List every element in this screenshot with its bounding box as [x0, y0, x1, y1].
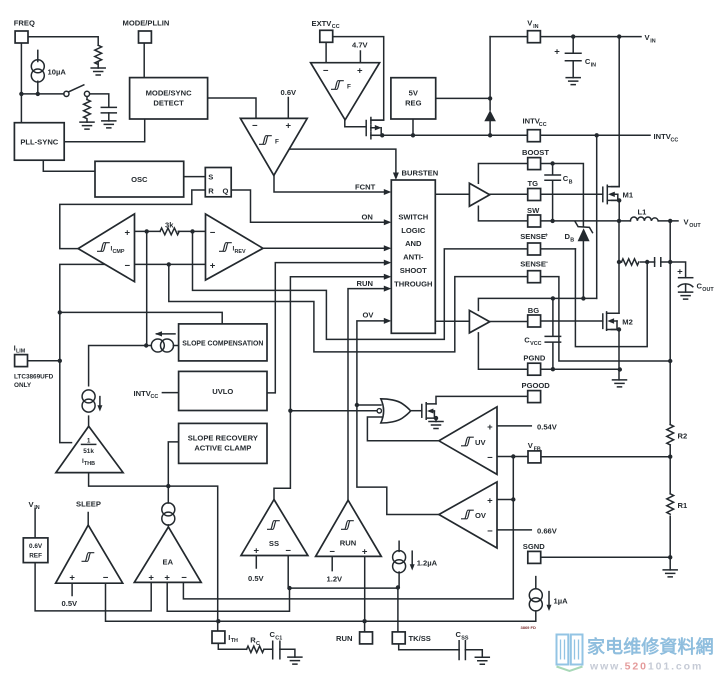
svg-text:RUN: RUN — [336, 634, 352, 643]
svg-text:+: + — [286, 121, 292, 132]
arrowhead RUN — [384, 286, 392, 292]
svg-text:RUN: RUN — [357, 279, 373, 288]
wire IREV output to switch logic — [263, 247, 387, 249]
svg-text:LIM: LIM — [16, 349, 26, 355]
current source 10uA — [31, 60, 66, 82]
pin SGND — [523, 542, 545, 564]
wire resistor under switch stub — [86, 97, 88, 100]
wire CVCC stubs — [552, 298, 554, 369]
svg-text:REG: REG — [405, 99, 422, 108]
wire TKSS pin vertical — [397, 588, 399, 632]
wire M2 source to pgnd ground — [611, 330, 619, 380]
svg-text:SLOPE COMPENSATION: SLOPE COMPENSATION — [182, 340, 263, 347]
wire BOOST pin right to DB — [541, 164, 584, 299]
arrowhead SS — [384, 274, 392, 280]
wire DETECT to 0.6V comparator minus — [208, 98, 256, 118]
wire FREQ pin to top resistor — [28, 37, 98, 46]
svg-text:C1: C1 — [275, 635, 282, 641]
ground under FREQ resistor — [91, 68, 105, 75]
svg-text:www.520101.com: www.520101.com — [589, 661, 703, 673]
diode DB schottky — [565, 221, 593, 243]
node OV to NOR — [355, 403, 359, 407]
ground at M2 source / PGND — [613, 380, 627, 387]
wire 5V REG under-stub — [412, 119, 414, 135]
current source ITHB clamp — [82, 390, 102, 412]
pin SW — [527, 206, 541, 227]
svg-text:BOOST: BOOST — [522, 148, 549, 157]
svg-text:L1: L1 — [638, 208, 648, 217]
svg-text:Q: Q — [223, 187, 229, 196]
svg-text:RUN: RUN — [340, 539, 356, 548]
wire SS plus to 0.5V — [255, 556, 257, 569]
node SW — [550, 219, 554, 223]
svg-text:S: S — [208, 173, 213, 182]
svg-text:51k: 51k — [83, 448, 94, 455]
resistor RC (horizontal) — [247, 636, 264, 653]
inductor L1 — [630, 208, 658, 221]
wire VIN pin right rail — [540, 36, 641, 38]
wire slope recovery to ITH node — [168, 442, 178, 486]
svg-text:R: R — [208, 187, 214, 196]
capacitor DCR sense — [655, 258, 661, 267]
wire EA current source stub — [167, 486, 169, 527]
pin RUN bottom — [336, 632, 373, 644]
node run pin line — [216, 619, 220, 623]
node pgood fet source — [434, 416, 438, 420]
svg-text:BG: BG — [528, 306, 539, 315]
svg-text:+: + — [210, 261, 216, 272]
svg-text:+: + — [487, 422, 493, 433]
svg-text:0.54V: 0.54V — [537, 422, 558, 431]
arrowhead BURSTEN — [393, 173, 399, 181]
wire VOUT cap branch — [670, 262, 685, 278]
svg-text:+: + — [545, 233, 549, 239]
svg-text:0.5V: 0.5V — [62, 599, 79, 608]
svg-text:SENSE: SENSE — [520, 260, 546, 269]
arrowhead slope mirror — [155, 331, 162, 336]
svg-text:−: − — [487, 453, 493, 464]
wire VOUT divider vertical — [669, 221, 671, 570]
wire SLEEP plus to 0.5V — [71, 583, 73, 595]
pfet EXTVCC switch — [366, 118, 384, 139]
capacitor CC1 — [270, 630, 283, 659]
svg-text:PGND: PGND — [523, 354, 545, 363]
wire OV minus to 0.66V — [497, 529, 531, 531]
wire SLEEP minus to RUN pin net — [106, 583, 536, 621]
node slope comp source — [144, 343, 148, 347]
svg-text:+: + — [148, 573, 154, 584]
pin TK/SS — [392, 632, 431, 644]
svg-text:−: − — [252, 121, 258, 132]
wire switch lever — [69, 85, 84, 92]
svg-text:BURSTEN: BURSTEN — [402, 169, 439, 178]
wire 10uA source stub and to node — [37, 50, 39, 94]
svg-text:CC: CC — [151, 394, 159, 400]
block MODE/SYNC DETECT — [130, 78, 208, 119]
node VFB — [511, 454, 515, 458]
op-amp OV comparator — [439, 482, 497, 548]
svg-text:5V: 5V — [409, 89, 419, 98]
arrowhead IREV — [384, 245, 392, 251]
wire UVLO output to switch logic — [267, 263, 387, 393]
driver BG buffer — [469, 310, 489, 333]
arrowhead FCNT — [384, 189, 392, 195]
capacitor CVCC — [524, 336, 560, 347]
wire RUN plus down to run pin line — [364, 556, 366, 621]
capacitor CSS — [456, 630, 469, 660]
svg-text:0.5V: 0.5V — [248, 574, 265, 583]
svg-text:CMP: CMP — [113, 249, 125, 255]
wire sense cap branch down — [575, 249, 647, 347]
wire NOR bottom input from UV output — [367, 417, 439, 441]
svg-text:SGND: SGND — [523, 542, 545, 551]
pin FREQ — [14, 19, 35, 44]
svg-text:IN: IN — [650, 38, 655, 44]
current source slope compensation mirror — [151, 339, 173, 352]
wire slope comp mirror arrow line — [157, 333, 176, 335]
pin INTVCC — [523, 117, 547, 142]
node SS to NOR — [288, 409, 292, 413]
capacitor CB — [545, 174, 573, 185]
mosfet PGOOD pulldown — [422, 403, 436, 422]
svg-text:B: B — [570, 237, 574, 243]
svg-text:4.7V: 4.7V — [352, 41, 369, 50]
resistor R2 — [667, 425, 687, 445]
block SWITCH LOGIC AND ANTI-SHOOT THROUGH — [391, 180, 435, 333]
pin PGND — [523, 354, 545, 376]
current source above EA — [162, 503, 175, 525]
wire INTVCC vertical to lower rail — [596, 135, 598, 298]
svg-text:+: + — [254, 546, 260, 557]
wire BOOST pin to driver rail — [478, 164, 527, 184]
block UVLO — [179, 371, 267, 410]
wire NOR top input from OV line — [357, 404, 381, 406]
op-amp SS comparator — [241, 500, 308, 557]
pin PGOOD — [522, 381, 551, 402]
svg-text:EA: EA — [163, 558, 174, 567]
wire FCNT: comparator out to switch logic — [274, 175, 387, 192]
svg-text:1: 1 — [87, 438, 91, 445]
svg-text:LOGIC: LOGIC — [401, 226, 426, 235]
driver TG buffer — [469, 183, 489, 206]
pin SENSE+ — [520, 232, 548, 255]
svg-text:F: F — [275, 139, 279, 146]
wire TKSS to CSS cap — [399, 644, 483, 657]
pin BG — [528, 306, 541, 327]
capacitor at switch — [101, 107, 116, 121]
svg-text:TK/SS: TK/SS — [409, 634, 431, 643]
pin ITH — [212, 631, 238, 644]
svg-text:FREQ: FREQ — [14, 19, 35, 28]
wire BURSTEN from comparator edge — [289, 149, 396, 176]
wire pfet source to INTVCC rail — [371, 134, 382, 136]
wire VIN label to REF box — [34, 509, 36, 538]
svg-text:SS: SS — [461, 635, 469, 641]
svg-text:SW: SW — [527, 206, 540, 215]
svg-text:INTV: INTV — [654, 132, 672, 141]
wire SW node down to M2 drain — [611, 221, 619, 313]
wire RUN pin stub — [364, 621, 366, 632]
node IREV plus — [167, 262, 171, 266]
arrowhead ON — [384, 219, 392, 225]
wire OV output staircase to switch logic — [357, 321, 439, 515]
block PLL-SYNC — [14, 123, 64, 161]
svg-text:IN: IN — [34, 505, 39, 511]
svg-text:UVLO: UVLO — [212, 387, 233, 396]
svg-text:CC: CC — [539, 122, 547, 128]
svg-text:THROUGH: THROUGH — [394, 279, 432, 288]
svg-text:SENSE: SENSE — [520, 232, 546, 241]
op-amp 1/51k ITHB buffer — [56, 426, 123, 472]
wire M1 stubs to node — [612, 200, 620, 221]
wire OSC to latch S — [184, 176, 206, 178]
wire VFB vertical to EA minus — [183, 457, 513, 599]
wire PGOOD fet drain to pin — [436, 396, 528, 404]
gate NOR pgood — [377, 399, 411, 423]
wire 51k clamp source branch — [89, 346, 147, 427]
wire ICMP plus vertical to slope comp source — [146, 231, 148, 345]
node divider taps — [668, 455, 672, 459]
svg-text:+: + — [487, 496, 493, 507]
svg-text:−: − — [545, 260, 549, 266]
svg-text:0.66V: 0.66V — [537, 526, 558, 535]
svg-text:DETECT: DETECT — [153, 99, 184, 108]
wire SENSE+ net: 3k node down across to pin — [193, 231, 528, 339]
svg-text:IN: IN — [533, 24, 538, 30]
wire switch node horizontal — [21, 94, 108, 107]
svg-text:+: + — [554, 47, 560, 58]
node 3k right — [190, 229, 194, 233]
svg-text:−: − — [285, 546, 291, 557]
svg-text:CC: CC — [671, 137, 679, 143]
svg-text:+: + — [677, 267, 683, 278]
node BOOST — [550, 161, 554, 165]
svg-text:+: + — [362, 547, 368, 558]
svg-text:−: − — [181, 573, 187, 584]
wire VIN down to M1 drain — [612, 37, 620, 187]
svg-text:TG: TG — [528, 179, 539, 188]
wire CIN stub — [572, 37, 574, 78]
block 5V REG — [391, 78, 436, 119]
svg-text:F: F — [347, 84, 351, 91]
wire ITH pin to RC — [218, 643, 295, 657]
svg-text:PLL-SYNC: PLL-SYNC — [20, 138, 58, 147]
wire CB stubs — [552, 164, 554, 221]
wire SS minus stub — [287, 556, 289, 589]
node DCR — [617, 260, 621, 264]
wire NOR output to PGOOD fet gate — [410, 410, 422, 412]
node PGND — [551, 367, 555, 371]
node ITH rail taps — [58, 310, 62, 314]
pin BOOST — [522, 148, 549, 169]
wire SLEEP apex stub — [87, 513, 89, 526]
wire SENSE- pin right to output rail — [541, 277, 671, 361]
block OSC — [95, 161, 184, 197]
svg-text:+: + — [69, 573, 75, 584]
wire SENSE- net: IREV plus node across to pin — [169, 264, 528, 352]
pin EXTVCC — [312, 19, 340, 43]
svg-text:INTV: INTV — [134, 389, 152, 398]
wire SENSE+ pin right — [541, 248, 576, 250]
wire FREQ pin down to PLL-SYNC — [20, 43, 22, 123]
wire latch Q to ON input — [231, 190, 387, 222]
wire slope comp mirror to box — [146, 345, 178, 347]
capacitor CIN — [554, 47, 596, 69]
wire UVLO label stub — [162, 392, 178, 394]
resistor at FREQ pin (vertical) — [95, 45, 102, 68]
wire ITH node line and down to ITH pin — [89, 473, 218, 631]
svg-text:R1: R1 — [678, 501, 688, 510]
wire EXTVCC pin to pfet drain — [332, 37, 383, 121]
wire PGND line — [478, 333, 619, 369]
op-amp ICMP current comparator — [78, 214, 134, 282]
svg-text:OV: OV — [475, 511, 487, 520]
svg-text:OV: OV — [363, 311, 375, 320]
wire ILIM pin to rail — [27, 360, 59, 362]
svg-text:3k: 3k — [165, 221, 174, 230]
svg-text:SHOOT: SHOOT — [400, 266, 427, 275]
wire OV plus to VFB vertical — [497, 499, 513, 501]
resistor R1 — [667, 494, 688, 514]
svg-text:ON: ON — [362, 213, 373, 222]
svg-text:+: + — [125, 227, 131, 238]
block SR latch — [205, 168, 231, 197]
op-amp EXTVCC 4.7V comparator F — [311, 63, 380, 120]
op-amp SLEEP comparator — [56, 525, 123, 583]
node 5VREG diode top — [488, 96, 492, 100]
wire DCR sense network — [619, 261, 670, 263]
svg-text:0.6V: 0.6V — [281, 88, 298, 97]
block SLOPE RECOVERY ACTIVE CLAMP — [179, 423, 267, 463]
wire BG output to M2 gate — [435, 320, 603, 323]
ground under switch resistor — [80, 122, 94, 129]
wire ICMP output to latch R — [60, 190, 206, 249]
wire lower INTVCC rail — [478, 298, 596, 310]
op-amp UV comparator — [439, 407, 497, 475]
wire ICMP plus node to 3k — [135, 230, 161, 232]
diode 5V REG to INTVCC — [484, 110, 496, 122]
svg-text:REF: REF — [29, 552, 42, 559]
node M2 source — [617, 327, 621, 331]
wire diode vertical — [489, 37, 491, 136]
mosfet M2 — [603, 312, 633, 330]
wire 0.6V REF output line to EA plus — [35, 563, 151, 611]
svg-text:CC: CC — [332, 24, 340, 30]
ground after CSS — [475, 657, 489, 664]
current source 1.2uA — [393, 551, 438, 573]
resistor 3k — [160, 221, 179, 235]
pin SENSE- — [520, 260, 548, 283]
svg-text:SLEEP: SLEEP — [76, 500, 101, 509]
svg-text:10µA: 10µA — [48, 68, 67, 77]
svg-text:−: − — [125, 260, 131, 271]
wire UV plus to 0.54V — [497, 425, 531, 427]
ground under CIN — [566, 78, 580, 85]
svg-text:FB: FB — [534, 446, 541, 452]
pin VFB — [528, 441, 541, 463]
svg-text:ONLY: ONLY — [14, 382, 32, 389]
svg-text:MODE/SYNC: MODE/SYNC — [146, 89, 193, 98]
svg-text:PGOOD: PGOOD — [522, 381, 551, 390]
svg-text:ACTIVE CLAMP: ACTIVE CLAMP — [194, 443, 251, 452]
svg-text:1µA: 1µA — [554, 597, 569, 606]
svg-text:0.6V: 0.6V — [29, 543, 43, 550]
svg-text:OSC: OSC — [131, 175, 148, 184]
wire ITH rail to slope comp box top — [60, 312, 222, 324]
svg-text:M2: M2 — [622, 318, 633, 327]
op-amp IREV current comparator — [206, 214, 264, 280]
wire 1.2uA source stubs — [398, 541, 400, 587]
svg-text:TH: TH — [231, 638, 238, 644]
svg-text:VCC: VCC — [530, 341, 541, 347]
op-amp RUN comparator — [316, 500, 382, 557]
wire UV minus to VFB pin — [497, 456, 528, 458]
wire PLL-SYNC to OSC — [43, 160, 95, 171]
svg-text:1.2V: 1.2V — [327, 574, 344, 583]
svg-text:M1: M1 — [623, 191, 634, 200]
wire SGND pin to ground rail — [541, 556, 670, 558]
wire EXTVCC comp out to pfet gate — [345, 120, 366, 127]
wire RUN minus to 1.2V — [331, 556, 333, 570]
svg-text:家电维修資料網: 家电维修資料網 — [587, 636, 714, 657]
node ITH line — [166, 484, 170, 488]
svg-text:SWITCH: SWITCH — [398, 212, 428, 221]
wire VIN pin left to regulator diode — [436, 37, 528, 99]
svg-text:LTC3869UFD: LTC3869UFD — [14, 373, 54, 380]
ground under PGOOD fet — [429, 422, 443, 429]
pin TG — [528, 179, 541, 200]
wire ICMP minus net down left rail — [60, 264, 135, 442]
node SENSE- to VOUT — [668, 359, 672, 363]
wire SW line to VOUT — [478, 206, 678, 221]
svg-text:SLOPE RECOVERY: SLOPE RECOVERY — [188, 433, 258, 442]
svg-text:UV: UV — [475, 438, 486, 447]
op-amp EA error amplifier — [134, 527, 201, 584]
svg-text:EXTV: EXTV — [312, 19, 333, 28]
svg-text:−: − — [323, 65, 329, 76]
ground after CC1 — [288, 657, 302, 664]
pin ILIM — [14, 344, 54, 389]
ground at SGND rail — [663, 570, 677, 577]
svg-text:MODE/PLLIN: MODE/PLLIN — [123, 19, 170, 28]
op-amp 0.6V F comparator — [240, 118, 307, 175]
wire 4.7V to comparator plus — [359, 51, 361, 63]
mosfet M1 — [603, 185, 634, 203]
ground under COUT — [679, 292, 693, 299]
pin MODE/PLLIN — [123, 19, 170, 44]
node lower intvcc rail — [551, 296, 555, 300]
svg-text:−: − — [487, 526, 493, 537]
wire INTVCC rail — [382, 134, 650, 136]
wire VFB pin to divider — [541, 456, 670, 458]
svg-text:+: + — [357, 65, 363, 76]
arrowhead UVLO — [384, 260, 392, 266]
node TKSS top — [396, 585, 400, 589]
svg-text:OUT: OUT — [689, 223, 701, 229]
capacitor COUT electrolytic — [677, 267, 714, 293]
wire ICMP minus to IREV plus — [135, 263, 206, 265]
node INTVCC rail — [488, 133, 492, 137]
wire SS minus node to 1.2uA source — [290, 587, 398, 589]
svg-text:+: + — [164, 573, 170, 584]
resistor DCR sense (horizontal) — [622, 259, 639, 265]
block 0.6V REF — [23, 538, 48, 563]
wire PLL-SYNC to MODE/SYNC DETECT — [64, 119, 145, 142]
svg-text:3869 FD: 3869 FD — [521, 625, 536, 630]
wire TG output to M1 gate — [435, 193, 603, 195]
wire 3k to IREV minus — [178, 230, 205, 232]
svg-text:B: B — [569, 179, 573, 185]
